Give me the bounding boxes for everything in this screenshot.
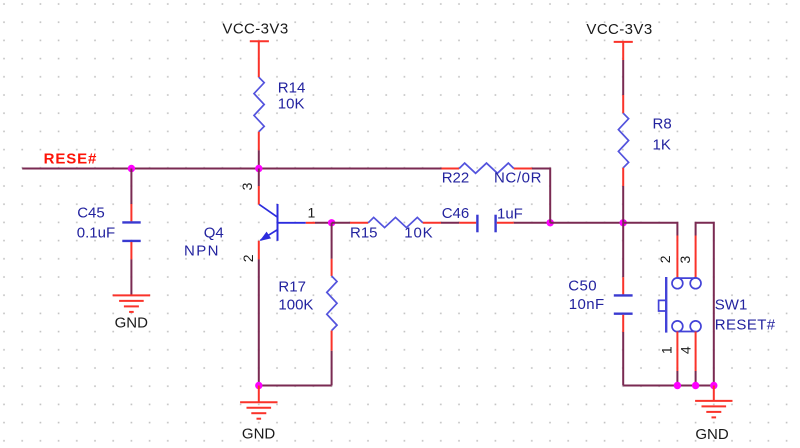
svg-text:3: 3 xyxy=(239,182,255,190)
ground (under C45) xyxy=(113,295,150,331)
svg-text:100K: 100K xyxy=(278,296,313,313)
svg-text:VCC-3V3: VCC-3V3 xyxy=(586,21,652,38)
svg-text:GND: GND xyxy=(695,426,729,443)
ground (bottom left) xyxy=(240,386,277,443)
svg-text:1K: 1K xyxy=(653,137,671,154)
svg-text:SW1: SW1 xyxy=(715,297,748,314)
resistor R8 xyxy=(618,95,671,186)
resistor R15 xyxy=(332,217,441,241)
junction at C45 xyxy=(128,165,135,172)
wire VCC to R8 xyxy=(622,60,624,95)
power flag VCC-3V3 (left) xyxy=(222,20,288,77)
svg-text:Q4: Q4 xyxy=(204,225,224,242)
wire switch pin3 jog xyxy=(696,223,714,386)
wire R22 corner down xyxy=(532,169,550,223)
power flag VCC-3V3 (right) xyxy=(586,21,652,60)
svg-text:10nF: 10nF xyxy=(569,296,605,313)
wire C46 junction to R8 node xyxy=(550,222,623,224)
junction pin1 rail xyxy=(674,382,681,389)
svg-text:R15: R15 xyxy=(350,224,378,241)
wire RESE# horizontal xyxy=(22,168,441,170)
junction pin4 rail xyxy=(692,382,699,389)
transistor Q4 xyxy=(184,169,316,263)
wire R14 to node xyxy=(258,150,260,168)
svg-text:1: 1 xyxy=(308,204,316,220)
resistor R17 xyxy=(278,223,337,386)
junction at emitter rail xyxy=(255,382,262,389)
resistor R22 xyxy=(442,163,543,187)
wire bottom-left rail xyxy=(259,385,332,387)
svg-text:R22: R22 xyxy=(442,169,470,186)
svg-text:R17: R17 xyxy=(278,278,306,295)
svg-text:4: 4 xyxy=(677,346,693,354)
capacitor C46 xyxy=(442,205,523,232)
wire switch pins to bottom rail xyxy=(676,371,678,386)
junction at R14/Q4 xyxy=(255,165,262,172)
capacitor C45 xyxy=(77,169,141,260)
svg-text:NPN: NPN xyxy=(184,242,220,259)
wire C45 to ground xyxy=(130,259,132,295)
svg-text:R8: R8 xyxy=(653,116,672,133)
svg-text:1: 1 xyxy=(658,346,674,354)
svg-text:C45: C45 xyxy=(77,204,105,221)
svg-text:10K: 10K xyxy=(278,95,305,112)
svg-text:10K: 10K xyxy=(404,224,433,241)
junction R22 branch xyxy=(547,219,554,226)
svg-text:RESE#: RESE# xyxy=(44,151,98,168)
wire bottom-right rail xyxy=(623,385,714,387)
switch SW1 xyxy=(657,236,776,372)
svg-text:GND: GND xyxy=(242,425,276,442)
svg-text:C46: C46 xyxy=(442,205,470,222)
wire C50 to bottom rail xyxy=(622,332,624,386)
wire Q4 emitter down xyxy=(258,259,260,385)
svg-text:R14: R14 xyxy=(278,79,306,96)
svg-text:2: 2 xyxy=(657,255,673,263)
svg-text:3: 3 xyxy=(677,255,693,263)
junction at R8/C50 xyxy=(620,219,627,226)
ground (bottom right) xyxy=(695,386,732,444)
capacitor C50 xyxy=(568,223,632,332)
svg-text:GND: GND xyxy=(115,315,149,332)
svg-text:VCC-3V3: VCC-3V3 xyxy=(222,20,288,37)
wire Q4 base xyxy=(306,222,315,224)
wire C46 to junction xyxy=(514,222,550,224)
svg-text:0.1uF: 0.1uF xyxy=(77,225,115,242)
svg-text:C50: C50 xyxy=(568,278,597,295)
junction at R17 xyxy=(328,219,335,226)
svg-text:2: 2 xyxy=(240,254,256,262)
wire node to switch xyxy=(623,223,677,236)
svg-text:1uF: 1uF xyxy=(497,206,523,223)
svg-text:RESET#: RESET# xyxy=(715,316,776,333)
svg-text:NC/0R: NC/0R xyxy=(494,170,542,187)
wire R15 to C46 xyxy=(441,222,459,224)
junction right rail xyxy=(710,382,717,389)
resistor R14 xyxy=(254,77,305,150)
wire R8 to node xyxy=(622,186,624,223)
